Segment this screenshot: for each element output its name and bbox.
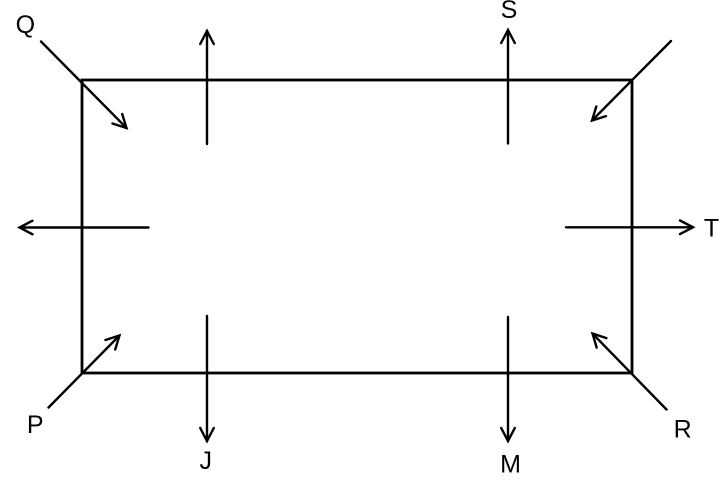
svg-text:J: J: [199, 447, 212, 475]
arrow upward (unlabeled, top-left of top edge): [200, 31, 214, 144]
svg-text:M: M: [500, 451, 521, 479]
svg-text:Q: Q: [16, 11, 35, 39]
arrow at corner P (pointing up-right into rectangle): [49, 336, 120, 408]
arrow S (pointing up out of top edge): [501, 30, 515, 144]
arrow at corner R (pointing up-left into rectangle): [593, 334, 667, 410]
arrow at corner Q (pointing into rectangle, down-right): [41, 42, 127, 129]
svg-text:T: T: [704, 215, 719, 243]
svg-text:P: P: [27, 411, 44, 439]
arrow M (pointing down out of bottom edge): [501, 317, 515, 441]
arrow T (pointing right out of right edge): [566, 221, 693, 235]
svg-text:R: R: [674, 416, 692, 444]
arrow at corner (top-right, pointing down-left into rectangle): [592, 41, 671, 121]
svg-text:S: S: [501, 0, 518, 24]
arrow J (pointing down out of bottom edge): [200, 316, 214, 441]
rectangle: [82, 80, 632, 373]
arrow leftward (unlabeled, out of left edge): [20, 221, 149, 235]
